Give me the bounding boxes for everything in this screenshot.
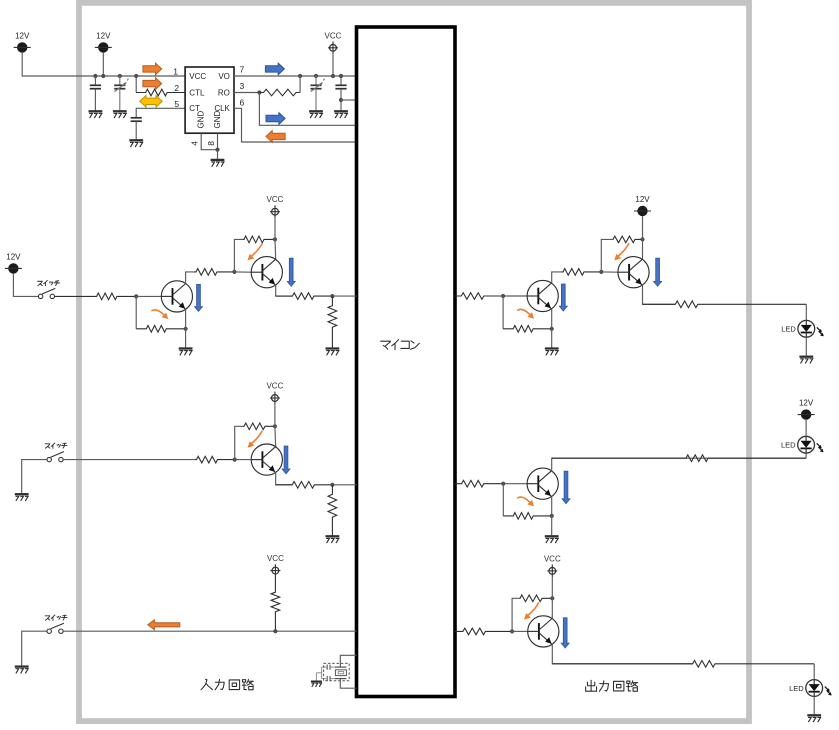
wire Q7 emitter out	[552, 644, 692, 664]
svg-text:VO: VO	[218, 72, 230, 81]
wire row2 to microcontroller	[332, 484, 356, 486]
resistor R6b	[519, 595, 552, 602]
svg-text:12V: 12V	[635, 195, 650, 204]
ground C1	[89, 111, 103, 118]
LED D3	[789, 680, 832, 697]
blue arrow Q6	[562, 471, 570, 503]
wire CLK to microcontroller	[234, 108, 357, 142]
wire SW3 to microcontroller	[63, 630, 356, 632]
transistor Q7 (output row3)	[528, 616, 559, 647]
svg-text:VCC: VCC	[267, 195, 284, 204]
transistor Q4 (output row1)	[527, 280, 558, 311]
svg-text:CTL: CTL	[189, 88, 205, 97]
wire SW2 to R2a	[63, 459, 195, 461]
trimmer arrow C4	[311, 79, 325, 92]
wire to Q7 base	[512, 630, 528, 632]
crystal X1	[335, 667, 347, 679]
junction GND pins	[215, 148, 219, 152]
resistor R1e	[276, 293, 333, 300]
resistor R2b	[243, 423, 275, 430]
svg-text:5: 5	[174, 99, 179, 109]
blue arrow Q3	[282, 446, 290, 474]
wire to Q4 base	[503, 295, 527, 297]
junction row3	[273, 629, 277, 633]
dashed box crystal	[324, 663, 350, 680]
wire C1 top lead	[94, 76, 96, 85]
wire 12V P2 drop	[102, 53, 104, 76]
ground C3	[129, 140, 143, 147]
junction RO	[257, 90, 261, 94]
resistor R6a	[455, 628, 512, 635]
wire to Q5i base	[235, 459, 252, 461]
junction rail CTL	[134, 74, 138, 78]
blue arrow Q2	[287, 258, 295, 286]
wire C5 down	[340, 89, 342, 100]
resistor R4e	[643, 301, 807, 308]
orange current arrow Q5	[614, 243, 629, 260]
wire RO to microcontroller	[259, 93, 356, 126]
svg-text:VCC: VCC	[266, 382, 283, 391]
svg-text:VCC: VCC	[189, 72, 206, 81]
wire LED3 to ground	[813, 696, 815, 715]
VCC supply out3	[544, 554, 561, 577]
svg-text:6: 6	[240, 97, 245, 107]
junction Q7 collector tap	[550, 596, 554, 600]
wire Q5i feedback up	[235, 426, 243, 459]
wire U1 gnd drop	[217, 150, 219, 160]
resistor R4a	[455, 293, 503, 300]
label switch SW1	[38, 280, 60, 285]
junction Q5i base	[233, 458, 237, 462]
wire row1 to microcontroller	[332, 295, 356, 297]
resistor R2a	[195, 456, 235, 463]
svg-text:LED: LED	[781, 325, 796, 334]
wire C5 tap to microcontroller	[341, 99, 357, 101]
wire SW3 to ground	[22, 631, 47, 666]
resistor R3a (pullup)	[271, 577, 280, 631]
12V supply row1	[5, 252, 22, 273]
ground SW3	[15, 667, 29, 674]
svg-text:4: 4	[190, 141, 200, 146]
wire crystal top	[340, 655, 356, 667]
junction rail C1	[93, 74, 97, 78]
resistor R-CTL	[136, 89, 185, 96]
wire Q5 collector	[642, 239, 644, 259]
transistor Q6 (output row2)	[527, 468, 558, 499]
wire RO up to rail	[299, 76, 301, 93]
svg-text:12V: 12V	[15, 31, 30, 40]
resistor R4d	[613, 236, 643, 243]
op-amp U1 (oscillator IC) body	[185, 67, 234, 133]
resistor R1a	[55, 293, 137, 300]
wire Q4 base-emitter drop	[502, 296, 504, 329]
wire C5 top lead	[340, 76, 342, 85]
label input circuit	[201, 679, 253, 689]
junction Q6 emitter	[550, 514, 554, 518]
U1 pin labels	[189, 72, 230, 129]
wire Q2 collector	[274, 239, 277, 259]
svg-text:LED: LED	[789, 684, 804, 693]
wire SW2 to ground	[22, 460, 47, 495]
junction Q5i collector tap	[273, 424, 277, 428]
blue arrow Q7	[561, 618, 569, 648]
junction Q6 base	[501, 482, 505, 486]
junction rail C5	[339, 74, 343, 78]
svg-text:12V: 12V	[96, 31, 111, 40]
wire C4 to ground	[315, 89, 317, 111]
ground C2	[113, 111, 127, 118]
12V supply out1	[634, 195, 651, 216]
wire to Q5 base	[601, 271, 618, 273]
junction Q4 base	[501, 294, 505, 298]
blue arrow Q4	[559, 284, 567, 311]
svg-text:VCC: VCC	[267, 554, 284, 563]
trimmer arrow C2	[115, 79, 129, 92]
transistor Q2	[251, 257, 282, 288]
resistor R-RO	[259, 89, 300, 96]
wire 12V P1 to rail	[22, 53, 185, 76]
svg-text:12V: 12V	[799, 399, 814, 408]
junction row1 output	[330, 294, 334, 298]
capacitor C4 (trimmer)	[310, 85, 321, 88]
junction Q2 base	[232, 270, 236, 274]
junction Q1 base	[134, 294, 138, 298]
orange current arrow Q6	[517, 497, 534, 506]
svg-text:GND: GND	[196, 111, 205, 129]
LED D1	[781, 320, 824, 337]
wire C5 to ground	[340, 100, 342, 111]
wire Q4 emitter	[551, 309, 553, 349]
junction rail C2	[118, 74, 122, 78]
transistor Q1	[161, 281, 192, 312]
label output circuit	[586, 680, 638, 691]
wire U1 GND pins	[201, 133, 217, 150]
svg-text:RO: RO	[218, 88, 230, 97]
junction VO/RO	[298, 74, 302, 78]
junction Q2 collector tap	[273, 237, 277, 241]
orange arrow row3	[148, 620, 180, 630]
label switch SW2	[45, 443, 67, 448]
ground SW2	[15, 494, 29, 501]
wire to Q1 base	[136, 295, 161, 297]
transistor Q3 (input row2)	[251, 444, 282, 475]
junction Q4 emitter	[550, 327, 554, 331]
svg-text:GND: GND	[213, 111, 222, 129]
wire to Q2 base	[234, 271, 251, 273]
resistor R4c	[561, 269, 601, 276]
wire Q1 emitter	[185, 309, 187, 348]
ground crystal	[311, 681, 322, 686]
svg-text:7: 7	[240, 64, 245, 74]
wire LED2 bottom lead	[805, 453, 807, 458]
wire C2 to ground	[119, 89, 121, 111]
resistor R5a	[455, 480, 503, 487]
wire to LED1	[805, 304, 807, 320]
wire Q6 collector to LED2	[552, 458, 806, 471]
ground LED1	[799, 357, 813, 364]
wire 12V out1 drop	[642, 216, 644, 239]
resistor R2d (pulldown)	[328, 485, 337, 536]
wire C4 top lead	[315, 76, 317, 85]
wire RO lead	[234, 92, 259, 94]
svg-text:1: 1	[173, 66, 178, 76]
junction Q5 base	[599, 270, 603, 274]
ground C4	[309, 111, 323, 118]
wire Q1 collector	[186, 272, 194, 284]
resistor R5c	[552, 455, 806, 462]
wire CT lead	[136, 108, 185, 118]
wire Q7 collector	[551, 598, 553, 619]
12V supply P2	[95, 31, 112, 52]
microcontroller block	[357, 27, 456, 697]
resistor R4b	[503, 326, 552, 333]
ground U1	[211, 160, 225, 167]
orange current arrow Q3	[248, 431, 263, 448]
wire VO rail	[234, 75, 357, 77]
wire Q2 emitter out	[276, 285, 293, 296]
wire Q6 emitter	[551, 497, 553, 537]
ground Q6	[545, 536, 559, 543]
resistor R1c	[194, 269, 235, 276]
switch SW1	[38, 288, 55, 298]
svg-text:LED: LED	[781, 441, 796, 450]
wire C1 to ground	[94, 89, 96, 111]
wire Q2 feedback up	[234, 239, 242, 272]
wire Q6 base-emitter drop	[502, 484, 504, 516]
ground LED3	[807, 715, 821, 722]
wire VCC row1 drop	[274, 218, 276, 239]
junction Q1 emitter	[184, 327, 188, 331]
wire Q1 base-emitter resistor drop	[135, 296, 137, 328]
wire VCC row2 drop	[274, 404, 276, 426]
ground C5	[334, 111, 348, 118]
wire Q5i collector	[274, 426, 277, 447]
capacitor C5	[335, 85, 346, 88]
LED D2	[781, 436, 824, 453]
label switch SW3	[45, 615, 67, 620]
svg-text:VCC: VCC	[544, 554, 561, 563]
resistor R1f (pulldown)	[328, 296, 337, 348]
wire 12V out2 to LED2	[805, 420, 807, 437]
ground row1 pulldown	[326, 349, 340, 356]
wire Q3 emitter out	[276, 472, 293, 485]
junction Q5 collector tap	[640, 237, 644, 241]
ground row2 pulldown	[326, 536, 340, 543]
frame border	[79, 3, 749, 721]
blue arrow RO	[266, 113, 285, 125]
12V supply out2	[798, 399, 815, 420]
wire to Q6 base	[503, 483, 527, 485]
resistor R1d	[242, 236, 275, 243]
svg-text:VCC: VCC	[325, 31, 342, 40]
blue arrow Q5	[654, 258, 662, 286]
svg-text:12V: 12V	[6, 252, 21, 261]
wire LED1 to ground	[805, 337, 807, 356]
crystal load capacitors	[316, 665, 334, 682]
wire to LED3	[813, 664, 815, 680]
junction rail P2	[101, 74, 105, 78]
junction rail C4	[314, 74, 318, 78]
capacitor C1	[90, 85, 101, 88]
svg-text:8: 8	[206, 141, 216, 146]
orange arrow CLK	[266, 131, 285, 143]
yellow double arrow CT	[140, 96, 162, 108]
wire Q4 collector	[552, 272, 561, 284]
U1 pin numbers	[173, 64, 244, 146]
svg-text:2: 2	[174, 83, 179, 93]
blue arrow Q1	[195, 284, 203, 311]
wire C3 to ground	[135, 121, 137, 140]
wire VCC drop to rail	[332, 54, 334, 76]
junction rail VCC	[331, 74, 335, 78]
VCC supply row2	[266, 382, 283, 405]
orange current arrow Q4	[517, 309, 534, 318]
svg-text:3: 3	[240, 81, 245, 91]
VCC supply row3	[267, 554, 284, 577]
transistor Q5 (output row1)	[618, 257, 649, 288]
junction C5 tap	[339, 98, 343, 102]
orange arrow in1	[143, 63, 162, 75]
blue arrow VO	[265, 63, 284, 75]
switch SW3	[47, 623, 64, 633]
ground Q1	[179, 349, 193, 356]
resistor R2c	[276, 482, 333, 489]
resistor R5b	[503, 513, 551, 520]
wire C2 top lead	[119, 76, 121, 85]
resistor R6c	[552, 661, 814, 668]
capacitor C2 (trimmer)	[114, 85, 125, 88]
switch SW2	[47, 452, 64, 462]
wire Q5 emitter out	[643, 285, 676, 305]
wire 12V row1 drop	[13, 274, 38, 297]
ground Q4	[545, 349, 559, 356]
VCC supply row1	[267, 195, 284, 218]
12V supply P1	[14, 31, 31, 52]
VCC supply top	[325, 31, 342, 54]
label maikon (microcontroller)	[381, 340, 420, 350]
wire crystal bottom	[340, 679, 356, 689]
junction Q7 base	[510, 629, 514, 633]
wire Q7 feedback up	[512, 598, 519, 631]
orange arrow in2	[143, 78, 162, 90]
resistor R1b	[136, 326, 185, 333]
orange current arrow Q1	[151, 310, 168, 319]
orange current arrow Q7	[524, 602, 539, 619]
junction row2 output	[330, 483, 334, 487]
orange current arrow Q2	[248, 243, 263, 260]
wire CTL drop	[135, 76, 137, 93]
capacitor C3	[131, 118, 142, 121]
wire Q5 feedback up	[601, 239, 612, 272]
wire VCC out3 drop	[551, 577, 553, 598]
